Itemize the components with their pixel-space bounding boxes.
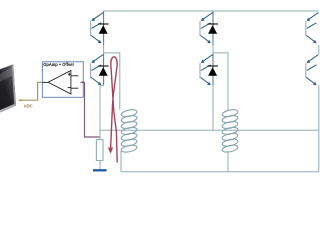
diode D4	[208, 66, 218, 76]
diode D2	[98, 66, 108, 76]
wire leg1 inter-cell rail	[103, 45, 105, 54]
microcontroller chip photo	[0, 64, 16, 112]
wire leg1 collector rail lower	[103, 54, 105, 86]
wire leg1 collector rail upper	[103, 11, 105, 45]
wire sense (purple) from shunt top to op-amp input	[80, 81, 100, 137]
inductor L2 (motor winding B)	[222, 109, 239, 154]
wire ADC from op-amp output to chip	[18, 82, 42, 101]
IGBT Q5 (leg3 high side, clipped)	[306, 13, 319, 44]
current loop annotation (red lasso)	[108, 57, 117, 163]
svg-text:ADC: ADC	[24, 104, 33, 109]
inductor L1 (motor winding A)	[121, 109, 138, 154]
wire middle bus (phase line)	[100, 129, 319, 131]
diode D3	[208, 24, 218, 34]
wire leg1 midpoint tap to coil L1	[104, 53, 120, 110]
wire coil L1 bottom to bottom bus	[120, 151, 122, 172]
IGBT Q4 (leg2 low side)	[200, 55, 213, 86]
resistor R1 (shunt)	[96, 140, 103, 161]
wire leg2 emitter down to middle bus	[212, 85, 214, 130]
wire leg2 collector rail upper	[212, 11, 214, 45]
wire leg3 emitter down right side	[318, 85, 320, 172]
wire bottom bus	[121, 171, 319, 173]
wire leg2 midpoint tap to coil L2	[213, 53, 228, 110]
wire top DC bus	[104, 10, 319, 12]
IGBT Q3 (leg2 high side)	[200, 13, 213, 44]
ground	[93, 169, 107, 171]
wire coil L2 bottom to bottom bus	[227, 151, 229, 172]
wire leg3 inter-cell rail	[318, 45, 320, 54]
IGBT Q1 (leg1 high side)	[91, 13, 104, 44]
svg-text:OpAmp + Offset: OpAmp + Offset	[43, 62, 74, 67]
wire leg2 inter-cell rail	[212, 45, 214, 54]
wire leg2 collector rail lower	[212, 54, 214, 86]
diode D1	[98, 24, 108, 34]
IGBT Q6 (leg3 low side, clipped)	[306, 55, 319, 86]
wire shunt to ground	[99, 161, 101, 170]
wire leg1 emitter down to shunt	[100, 85, 104, 140]
IGBT Q2 (leg1 low side)	[91, 55, 104, 86]
op-amp block U1 (OpAmp + Offset)	[42, 62, 83, 98]
